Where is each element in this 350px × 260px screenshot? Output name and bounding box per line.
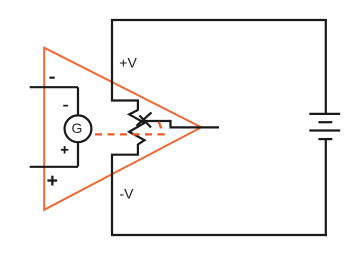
wire: open test lead (positive) [30,166,78,168]
wire: -V lead from resistor to bottom rail [112,144,138,235]
svg-text:G: G [71,120,82,136]
dashed adjustment linkage (galvanometer to wiper) [92,122,164,135]
battery B1 plate 1 (long) [309,113,340,115]
wire: open test lead (negative) [30,86,78,88]
wire: top supply rail [111,19,327,21]
wire: +V lead from top rail to resistor [112,19,138,111]
wire: right rail upper (to battery +) [325,19,327,114]
galvanometer G1 (null detector) [65,115,92,142]
wire: bottom supply rail [111,234,327,236]
wire: right rail lower (from battery -) [325,139,327,236]
label - (source terminal, bold) [49,77,54,79]
op-amp U1 (orange triangle body) [44,48,201,210]
potentiometer wiper arrow barb 2 [140,116,152,128]
resistor R1 (potentiometer element, vertical zigzag) [129,110,144,144]
label - (galvanometer polarity, small) [63,105,68,107]
label + (source terminal, bold) [47,176,57,186]
battery B1 plate 4 (short) [318,138,332,140]
wire: galvanometer bottom lead [77,142,79,166]
potentiometer wiper arrow barb 1 [137,113,152,126]
svg-text:+V: +V [119,55,137,71]
svg-text:-V: -V [120,186,135,202]
battery B1 plate 2 (short) [318,121,332,123]
battery B1 plate 3 (long) [309,129,340,131]
wire: wiper output to op-amp apex (stepped) [144,121,220,127]
label + (galvanometer polarity, small) [61,146,68,153]
wire: galvanometer top lead [77,87,79,115]
